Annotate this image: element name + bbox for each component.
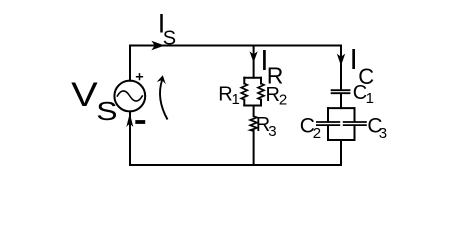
svg-text:2: 2 xyxy=(313,125,321,142)
svg-text:3: 3 xyxy=(379,125,387,142)
svg-text:I: I xyxy=(350,44,358,76)
svg-text:R: R xyxy=(266,84,280,106)
svg-text:S: S xyxy=(96,96,117,126)
svg-text:3: 3 xyxy=(268,123,276,140)
svg-text:V: V xyxy=(71,76,98,114)
svg-text:1: 1 xyxy=(232,91,240,108)
svg-text:S: S xyxy=(163,27,176,49)
svg-text:2: 2 xyxy=(279,92,287,109)
svg-text:1: 1 xyxy=(366,90,374,107)
